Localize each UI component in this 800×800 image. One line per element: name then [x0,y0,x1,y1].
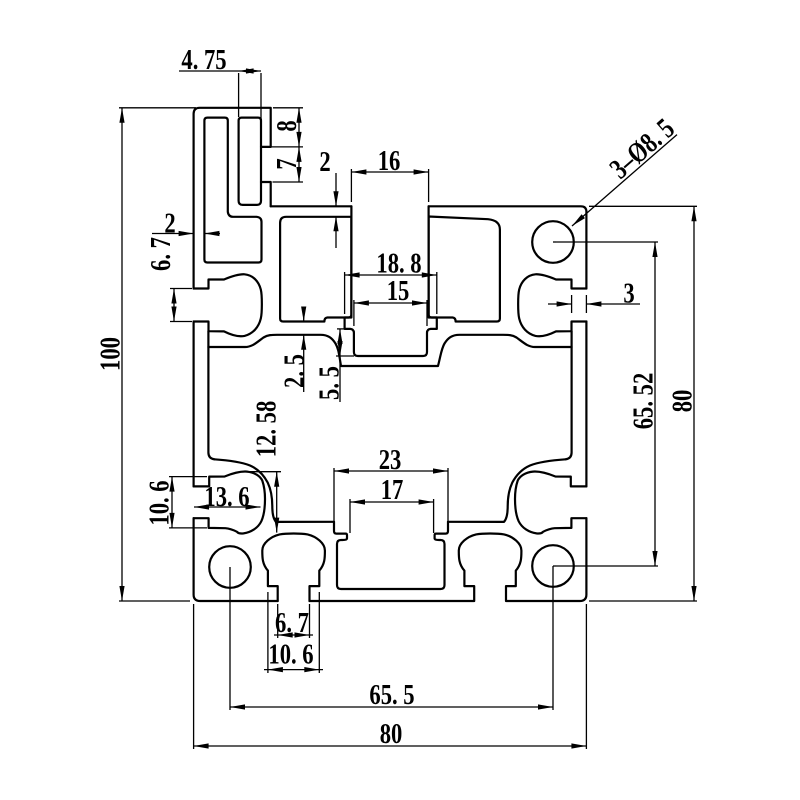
cavity lower-right sweep and floor [448,459,566,522]
central top T-slot [345,206,437,356]
dimension 2.5 [303,308,305,322]
hole bottom-left (Ø8.5) [209,546,251,588]
dimension 10.6 (bottom) [267,592,269,673]
dimension 13.6 [194,506,261,508]
left chamber void [280,217,351,322]
right face middle segment [585,322,587,487]
bottom central T-pocket (23/17) [334,522,448,589]
svg-text:8: 8 [270,120,302,131]
svg-text:2: 2 [164,207,175,239]
dimension 100 (overall height) [119,107,196,109]
svg-text:65. 5: 65. 5 [369,678,414,710]
cavity ceiling web [208,335,571,366]
cavity lower-left sweep and floor [214,459,334,522]
left face middle segment [193,322,195,487]
svg-text:10. 6: 10. 6 [268,638,313,670]
dimension 10.6 (left) [169,476,207,478]
left face lower segment and bottom-left corner [194,518,278,601]
left upper screw channel [194,274,262,336]
dimension 5.5 [336,355,354,357]
svg-text:17: 17 [381,473,404,505]
svg-text:100: 100 [94,337,126,371]
right chamber void [429,217,500,322]
right upper screw channel [518,274,586,336]
svg-text:16: 16 [378,144,401,176]
hole bottom-right (Ø8.5) [532,545,574,587]
dimension 15 [353,300,355,326]
dimension 80 (bottom) [193,604,195,749]
dimension 80 (right) [589,205,697,207]
svg-text:6. 7: 6. 7 [144,237,176,271]
dimension 18.8 [344,272,346,314]
svg-text:80: 80 [666,390,698,413]
hole top-right (Ø8.5) [532,221,574,263]
dimension 6.7 (bottom) [277,604,279,638]
svg-text:65. 52: 65. 52 [627,373,659,430]
bottom screw channel left (6.7/10.6) [262,534,325,602]
dimension 16 (central mouth) [350,169,352,202]
dimension 4.75 (hook slot width) [179,70,261,72]
fin slot2 (4.75 hook slot) [239,118,261,205]
dimension 3 (right wall) [548,303,572,305]
bottom face right segment and bottom-right corner [506,518,586,601]
dimension 65.5 [229,570,231,710]
svg-text:15: 15 [387,274,410,306]
dimension 8 and 7 (hook mouth) [273,107,303,109]
right lower screw channel [515,472,586,534]
svg-text:23: 23 [379,443,402,475]
fin slot1 and pocket cavity [204,118,261,263]
svg-text:13. 6: 13. 6 [204,480,249,512]
svg-text:3: 3 [623,277,634,309]
hole center lines [553,241,556,243]
dimension 65.52 [556,241,658,243]
top face right segment and corner [429,206,587,288]
top face left segment [271,205,352,207]
cavity right wall [566,331,572,459]
left lower screw channel [194,472,265,534]
dimension 2 (fin wall) [152,233,194,235]
svg-text:80: 80 [380,717,403,749]
svg-text:10. 6: 10. 6 [143,480,175,525]
cavity left wall [208,331,214,459]
dimension 23 [333,468,335,521]
svg-text:6. 7: 6. 7 [275,606,309,638]
bottom face between channels [310,600,474,602]
dimension 12.58 [247,471,281,473]
bottom screw channel right [459,534,522,602]
dimension 17 [349,499,351,533]
svg-text:12. 58: 12. 58 [250,401,282,458]
svg-text:2. 5: 2. 5 [278,354,310,388]
leader 3-Ø8.5 (holes) [572,135,677,226]
dimension 2 (flange) [335,173,337,206]
svg-text:4. 75: 4. 75 [181,43,226,75]
profile fin outer (top hook) [194,108,271,289]
svg-text:7: 7 [270,158,302,169]
svg-text:2: 2 [319,145,330,177]
dimension 6.7 (left upper mouth) [170,288,192,290]
